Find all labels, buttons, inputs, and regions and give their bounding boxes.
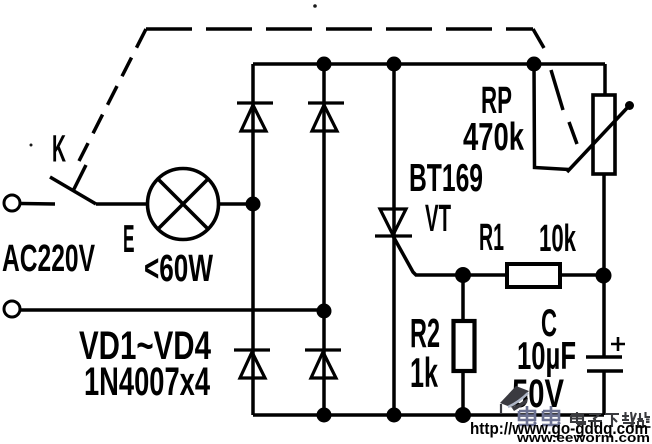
node dot: lamp to bridge <box>246 197 261 212</box>
wire: capacitor bottom to rail <box>602 371 606 415</box>
node dot: R1 right / C <box>596 268 612 284</box>
wire: RP bottom to R1/C node <box>602 174 606 357</box>
wire: R2 bottom to rail <box>461 372 465 415</box>
wire: dashed mechanical link, right diagonal to RP wiper <box>533 29 544 48</box>
wire: dashed mechanical link, top horizontal <box>146 27 533 31</box>
diode VD top-right <box>308 103 344 131</box>
lamp E circle <box>148 169 219 240</box>
svg-text:K: K <box>52 129 66 171</box>
svg-text:VT: VT <box>425 198 451 240</box>
lamp E cross <box>158 179 208 229</box>
node dot: top rail / RP wiper <box>527 57 542 72</box>
switch K actuator <box>73 165 86 191</box>
svg-text:10k: 10k <box>539 218 577 260</box>
wire: RP wiper connection <box>534 64 569 170</box>
node dot: top rail / col2 <box>317 57 332 72</box>
potentiometer RP body <box>593 95 615 174</box>
node dot: top rail / thyristor <box>387 57 402 72</box>
wire: switch to lamp <box>96 202 148 206</box>
watermark bug characters <box>518 406 560 425</box>
switch K blade <box>50 177 96 204</box>
svg-text:AC220V: AC220V <box>2 238 95 280</box>
svg-text:1N4007x4: 1N4007x4 <box>84 360 211 404</box>
wire: top rail corner to RP <box>603 64 607 95</box>
svg-text:<60W: <60W <box>144 248 213 290</box>
wire: dashed mechanical link, left diagonal down to switch <box>79 29 146 161</box>
node dot: bottom rail / col2 <box>317 408 332 423</box>
wire: bottom rail <box>253 413 604 417</box>
wire: bridge left column <box>251 64 255 415</box>
resistor R1 <box>507 264 560 287</box>
resistor R2 <box>454 321 475 371</box>
capacitor C polarity plus <box>611 337 625 351</box>
potentiometer RP wiper arrow <box>567 107 628 172</box>
wire: bridge right column <box>322 64 326 415</box>
wire: bottom AC to bridge <box>21 308 324 312</box>
wire: top AC stub to switch contact <box>21 202 55 206</box>
wire: top rail <box>253 62 605 66</box>
thyristor VT <box>375 209 412 236</box>
node dot: bottom rail / R2 <box>455 407 471 423</box>
node dot: bottom AC to bridge <box>317 304 332 319</box>
capacitor C plates <box>586 357 623 371</box>
wire: gate node to R1 <box>463 273 507 277</box>
watermark site name characters <box>571 412 651 427</box>
node dot: gate / R1 / R2 <box>455 267 471 283</box>
node dot: bottom rail / thyristor <box>387 408 402 423</box>
svg-text:1k: 1k <box>410 349 438 396</box>
wire: node to R2 top <box>461 275 465 320</box>
svg-text:470k: 470k <box>463 116 524 159</box>
diode VD bottom-left <box>234 350 270 378</box>
terminal: AC line bottom <box>4 301 20 317</box>
watermark logo <box>500 386 529 414</box>
svg-text:BT169: BT169 <box>409 157 483 200</box>
wire: R1 to right column <box>560 273 604 277</box>
speck <box>30 144 33 147</box>
diode VD top-left <box>237 103 273 131</box>
speck <box>313 4 317 8</box>
svg-text:E: E <box>123 218 135 261</box>
terminal: AC line top <box>4 195 20 211</box>
wire: thyristor gate <box>393 236 463 275</box>
wire: lamp to bridge node <box>218 202 253 206</box>
wire: thyristor branch vertical <box>392 64 396 415</box>
svg-text:R1: R1 <box>479 217 504 259</box>
svg-text:www.eeworm.com: www.eeworm.com <box>516 430 650 444</box>
diode VD bottom-right <box>305 350 341 378</box>
